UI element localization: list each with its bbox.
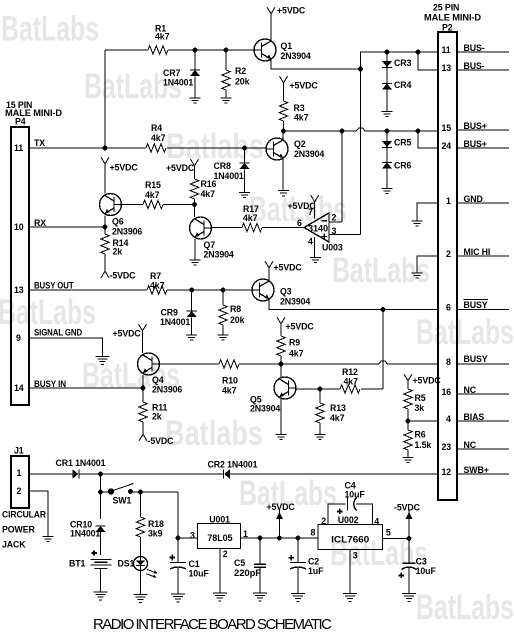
svg-text:MALE MINI-D: MALE MINI-D bbox=[424, 13, 481, 23]
svg-text:+5VDC: +5VDC bbox=[110, 163, 139, 173]
svg-text:DS1: DS1 bbox=[118, 559, 135, 569]
svg-text:MIC HI: MIC HI bbox=[464, 247, 491, 257]
svg-text:11: 11 bbox=[442, 45, 451, 55]
wire to P2 pin 13 bbox=[418, 52, 438, 70]
ground R13 bbox=[315, 435, 326, 440]
svg-text:R15: R15 bbox=[145, 180, 161, 190]
svg-text:C5: C5 bbox=[234, 558, 245, 568]
svg-text:BUS+: BUS+ bbox=[464, 139, 487, 149]
resistor R3 4k7 bbox=[279, 101, 308, 131]
junction CR3 top bbox=[385, 50, 390, 55]
diode CR5 bbox=[382, 131, 412, 163]
wire U003 pin 2 to BUS+ riser bbox=[329, 221, 342, 223]
TX-BUS SECTION bbox=[29, 6, 438, 279]
svg-text:1N4001: 1N4001 bbox=[163, 78, 193, 88]
ground DS1 bbox=[134, 595, 148, 603]
svg-text:BUSY: BUSY bbox=[464, 300, 488, 310]
svg-text:4: 4 bbox=[308, 237, 313, 247]
wire R12 riser upper bbox=[382, 310, 384, 390]
svg-text:4k7: 4k7 bbox=[145, 190, 160, 200]
svg-text:220pF: 220pF bbox=[234, 568, 262, 578]
svg-text:2N3906: 2N3906 bbox=[152, 385, 182, 395]
ground U002 pin 3 bbox=[343, 594, 357, 602]
wire J1 pin 2 to ground bbox=[29, 491, 48, 537]
svg-text:+5VDC: +5VDC bbox=[274, 263, 303, 273]
wire P2 pin 1 to ground bbox=[417, 203, 438, 221]
svg-text:10uF: 10uF bbox=[416, 566, 437, 576]
svg-text:Batlabs: Batlabs bbox=[165, 414, 263, 453]
svg-text:3: 3 bbox=[353, 551, 358, 561]
svg-text:R18: R18 bbox=[148, 519, 164, 529]
ground U003 pin 4 bbox=[310, 258, 321, 263]
svg-text:4k7: 4k7 bbox=[243, 213, 258, 223]
svg-text:3k: 3k bbox=[415, 403, 425, 413]
power +5VDC output bbox=[267, 502, 296, 538]
svg-text:P4: P4 bbox=[15, 117, 26, 127]
power +5VDC R16 bbox=[166, 159, 199, 179]
svg-text:13: 13 bbox=[442, 63, 452, 73]
svg-text:R7: R7 bbox=[150, 271, 161, 281]
svg-text:J1: J1 bbox=[14, 446, 24, 456]
wire Q6 collector to R15 bbox=[122, 204, 195, 206]
wire Q1 emitter to BUS- node bbox=[271, 60, 361, 69]
power +5VDC Q6 bbox=[101, 157, 138, 194]
svg-text:RADIO INTERFACE BOARD SCHEMATI: RADIO INTERFACE BOARD SCHEMATIC bbox=[93, 616, 332, 633]
capacitor C2 1uF bbox=[289, 538, 325, 594]
wire Q2 emitter to ground bbox=[282, 159, 284, 191]
wire BUS+ riser to op-amp pin 2 bbox=[341, 131, 343, 222]
svg-text:78L05: 78L05 bbox=[207, 533, 232, 543]
svg-text:+5VDC: +5VDC bbox=[413, 376, 442, 386]
wire U003 pin 3 to BUS- riser bbox=[329, 234, 361, 236]
svg-text:U003: U003 bbox=[322, 243, 343, 253]
ground BT1 bbox=[94, 592, 108, 600]
resistor R6 1.5k bbox=[404, 421, 432, 458]
svg-text:1uF: 1uF bbox=[308, 566, 324, 576]
svg-text:20k: 20k bbox=[230, 315, 245, 325]
svg-text:R16: R16 bbox=[201, 179, 217, 189]
net NC pin16 stub bbox=[457, 385, 509, 395]
diode CR9 1N4001 bbox=[160, 290, 197, 335]
resistor R8 20k bbox=[219, 290, 245, 335]
svg-text:2: 2 bbox=[321, 516, 326, 526]
wire Q7 emitter to ground bbox=[194, 239, 196, 260]
svg-text:2: 2 bbox=[332, 213, 337, 223]
net GND stub bbox=[457, 194, 509, 204]
svg-text:Q2: Q2 bbox=[294, 139, 306, 149]
ground Q7 bbox=[190, 260, 201, 265]
wire BUSY IN from P4 pin 14 bbox=[29, 387, 143, 389]
power -5VDC output bbox=[394, 503, 421, 539]
resistor R2 20k bbox=[222, 50, 250, 98]
svg-text:POWER: POWER bbox=[2, 525, 35, 535]
wire U001 pin 2 to ground bbox=[219, 549, 221, 593]
svg-text:4k7: 4k7 bbox=[330, 413, 345, 423]
svg-text:C1: C1 bbox=[189, 559, 200, 569]
svg-text:BUS+: BUS+ bbox=[464, 121, 487, 131]
net NC pin23 stub bbox=[457, 440, 509, 450]
wire BUS- riser and top run bbox=[361, 52, 439, 69]
svg-text:2k: 2k bbox=[152, 412, 162, 422]
transistor Q7 2N3904 bbox=[190, 217, 234, 260]
ground R8 bbox=[218, 335, 229, 340]
svg-text:4k7: 4k7 bbox=[151, 133, 166, 143]
junction CR9 bbox=[189, 288, 194, 293]
wire Q7 collector to R17 bbox=[212, 227, 304, 229]
junction BUS- bbox=[358, 67, 363, 72]
ground CR7 bbox=[190, 98, 201, 103]
wire SIGNAL GND from P4 pin 9 bbox=[29, 338, 103, 357]
resistor R13 4k7 bbox=[316, 389, 346, 435]
battery BT1 bbox=[69, 550, 112, 592]
ground CR5 CR6 bbox=[382, 189, 393, 194]
diode CR4 bbox=[382, 80, 412, 111]
wire U002 pin 5 to -5VDC node bbox=[383, 538, 410, 540]
wire CR1 to CR2 bbox=[79, 473, 224, 475]
svg-text:6: 6 bbox=[297, 218, 302, 228]
wire U003 pin 4 to ground bbox=[314, 237, 316, 258]
resistor R1 4k7 bbox=[148, 24, 170, 55]
svg-text:1: 1 bbox=[446, 196, 451, 206]
svg-text:CR7: CR7 bbox=[163, 68, 181, 78]
resistor R7 4k7 bbox=[147, 271, 167, 294]
svg-text:R3: R3 bbox=[294, 103, 305, 113]
resistor R14 2k bbox=[101, 227, 129, 271]
wire TX node to CR8 bbox=[242, 146, 247, 151]
svg-text:R2: R2 bbox=[235, 66, 246, 76]
svg-text:R8: R8 bbox=[230, 304, 241, 314]
svg-text:CR9: CR9 bbox=[161, 308, 179, 318]
svg-text:CR5: CR5 bbox=[394, 138, 412, 148]
svg-text:+5VDC: +5VDC bbox=[113, 329, 142, 339]
junction pin13 branch bbox=[416, 50, 421, 55]
svg-text:BatLabs: BatLabs bbox=[416, 313, 514, 352]
wire BUS+ run with hop over BUS- riser bbox=[284, 128, 439, 131]
wire U002 pin 2 up bbox=[328, 504, 346, 525]
ground J1 pin 2 bbox=[43, 537, 54, 542]
svg-text:R4: R4 bbox=[151, 123, 162, 133]
junction R8 bbox=[221, 288, 226, 293]
svg-text:BT1: BT1 bbox=[69, 559, 86, 569]
junction BIAS bbox=[406, 419, 411, 424]
transistor Q4 2N3906 bbox=[138, 353, 183, 395]
power +5VDC R9 bbox=[277, 317, 314, 336]
svg-text:4k7: 4k7 bbox=[222, 386, 237, 396]
svg-text:4k7: 4k7 bbox=[201, 189, 216, 199]
wire J1 pin 1 to CR1 bbox=[29, 473, 73, 475]
svg-text:3: 3 bbox=[190, 530, 195, 540]
junction BUSY node Q5 collector bbox=[279, 362, 284, 367]
svg-text:1.5k: 1.5k bbox=[415, 440, 432, 450]
svg-text:BatLabs: BatLabs bbox=[332, 251, 430, 290]
diode CR6 bbox=[382, 161, 412, 189]
svg-text:+5VDC: +5VDC bbox=[166, 163, 195, 173]
ground C1 bbox=[171, 594, 185, 602]
svg-text:4: 4 bbox=[374, 517, 379, 527]
ground C5 bbox=[253, 593, 267, 601]
svg-text:2: 2 bbox=[446, 249, 451, 259]
svg-text:R5: R5 bbox=[415, 393, 426, 403]
svg-text:4k7: 4k7 bbox=[150, 281, 165, 291]
connector P2 25-pin male mini-D bbox=[424, 3, 481, 501]
svg-text:15: 15 bbox=[442, 123, 452, 133]
diode CR2 1N4001 bbox=[208, 460, 258, 479]
resistor R16 4k7 bbox=[190, 179, 216, 205]
LED DS1 bbox=[118, 556, 158, 595]
svg-text:4k7: 4k7 bbox=[289, 349, 304, 359]
junction SW1 left bbox=[98, 490, 103, 495]
junction C2 bbox=[296, 536, 301, 541]
transistor Q5 2N3904 bbox=[250, 377, 296, 414]
svg-text:CR2 1N4001: CR2 1N4001 bbox=[208, 460, 258, 470]
power +5VDC Q4 bbox=[113, 324, 147, 353]
capacitor C4 10uF bbox=[337, 481, 365, 515]
svg-text:10: 10 bbox=[14, 222, 24, 232]
svg-text:1N4001: 1N4001 bbox=[160, 317, 190, 327]
svg-text:R13: R13 bbox=[330, 403, 346, 413]
wire U002 pin 3 to ground bbox=[349, 550, 351, 594]
svg-text:+5VDC: +5VDC bbox=[277, 6, 306, 16]
svg-text:CR3: CR3 bbox=[394, 58, 412, 68]
svg-text:-5VDC: -5VDC bbox=[148, 436, 175, 446]
ground R6 bbox=[403, 458, 414, 463]
svg-text:R12: R12 bbox=[342, 367, 358, 377]
ground CR8 bbox=[239, 193, 250, 198]
net BUSY stub bbox=[457, 354, 509, 364]
power +5VDC R3 bbox=[280, 76, 319, 101]
svg-text:CR6: CR6 bbox=[394, 161, 412, 171]
net BIAS stub bbox=[457, 412, 509, 422]
wire Q4 to R10 bbox=[159, 363, 281, 365]
svg-text:13: 13 bbox=[14, 285, 24, 295]
ground P2 pin 1 bbox=[412, 221, 423, 226]
wire P2 pin 2 to ground bbox=[417, 256, 438, 273]
svg-text:-5VDC: -5VDC bbox=[110, 271, 137, 281]
connector P4 15-pin male mini-D bbox=[5, 100, 62, 405]
svg-text:2k: 2k bbox=[113, 247, 123, 257]
resistor R17 4k7 bbox=[242, 204, 262, 232]
wire U002 pin 4 up bbox=[356, 504, 373, 525]
net BUS+ pin24 stub bbox=[457, 139, 509, 149]
ground P2 pin 2 bbox=[412, 273, 423, 278]
diode CR8 1N4001 bbox=[214, 148, 250, 193]
IC U002 ICL7660 bbox=[311, 515, 391, 561]
svg-text:BUSY OUT: BUSY OUT bbox=[34, 281, 74, 291]
wire Q5 collector lead bbox=[280, 364, 282, 378]
capacitor C5 220pF bbox=[234, 538, 266, 593]
svg-text:Q1: Q1 bbox=[281, 41, 293, 51]
svg-text:4k7: 4k7 bbox=[344, 377, 359, 387]
resistor R18 3k9 bbox=[136, 492, 164, 557]
svg-text:4k7: 4k7 bbox=[294, 113, 309, 123]
svg-text:3k9: 3k9 bbox=[148, 529, 163, 539]
wire Q4 lower lead bbox=[142, 375, 144, 388]
svg-text:1N4001: 1N4001 bbox=[214, 171, 244, 181]
svg-text:BatLabs: BatLabs bbox=[0, 293, 96, 332]
ground C2 bbox=[291, 594, 305, 602]
resistor R15 4k7 bbox=[143, 180, 163, 209]
svg-text:C2: C2 bbox=[308, 557, 319, 567]
power -5VDC R14 bbox=[101, 271, 136, 281]
resistor R12 4k7 bbox=[340, 367, 360, 393]
svg-text:Q3: Q3 bbox=[280, 287, 292, 297]
svg-text:1N4001: 1N4001 bbox=[70, 529, 100, 539]
svg-text:2: 2 bbox=[223, 549, 228, 559]
power +5VDC U003 pin 7 bbox=[288, 195, 319, 219]
diode CR10 1N4001 bbox=[70, 520, 106, 556]
svg-text:2N3904: 2N3904 bbox=[294, 149, 324, 159]
power +5VDC Q1 bbox=[267, 6, 306, 41]
svg-text:R10: R10 bbox=[222, 376, 238, 386]
svg-text:CIRCULAR: CIRCULAR bbox=[2, 510, 47, 520]
wire BUSY run to P2 pin 8 with hop over R12 riser bbox=[281, 361, 438, 364]
svg-text:CR4: CR4 bbox=[394, 80, 412, 90]
svg-text:U001: U001 bbox=[209, 515, 230, 525]
svg-text:-5VDC: -5VDC bbox=[394, 503, 421, 513]
junction C5 bbox=[258, 536, 263, 541]
junction R15 R16 Q7 bbox=[192, 202, 197, 207]
net BUSY-bar stub bbox=[457, 300, 509, 311]
wire Q5 emitter to ground bbox=[280, 399, 282, 435]
junction CR7 bbox=[193, 48, 198, 53]
svg-text:CR8: CR8 bbox=[214, 161, 232, 171]
transistor Q6 2N3906 bbox=[100, 194, 143, 237]
junction Q4 base bbox=[141, 386, 146, 391]
resistor R5 3k bbox=[404, 389, 426, 421]
resistor R4 4k7 bbox=[146, 123, 166, 152]
svg-text:BUS-: BUS- bbox=[464, 61, 485, 71]
svg-text:1: 1 bbox=[17, 468, 22, 478]
ground Q2 bbox=[278, 191, 289, 196]
svg-text:2: 2 bbox=[17, 486, 22, 496]
ground Q5 bbox=[276, 435, 287, 440]
ground C3 bbox=[402, 594, 416, 602]
wire BIAS to P2 pin 4 bbox=[408, 420, 438, 422]
svg-text:BatLabs: BatLabs bbox=[1, 10, 99, 49]
svg-text:2N3904: 2N3904 bbox=[250, 404, 280, 414]
svg-text:ICL7660: ICL7660 bbox=[331, 535, 369, 545]
junction BUSY-bar R12 riser bbox=[381, 307, 386, 312]
svg-text:14: 14 bbox=[14, 383, 24, 393]
svg-text:8: 8 bbox=[311, 528, 316, 538]
wire BUSY OUT from P4 pin 13 bbox=[29, 289, 253, 291]
net SWB+ stub bbox=[457, 465, 509, 475]
wire to P2 pin 24 bbox=[418, 131, 438, 148]
svg-text:+5VDC: +5VDC bbox=[288, 201, 317, 211]
svg-text:BUS-: BUS- bbox=[464, 43, 485, 53]
POWER SECTION bbox=[29, 458, 438, 602]
IC U001 78L05 bbox=[190, 515, 248, 560]
svg-text:9: 9 bbox=[16, 333, 21, 343]
svg-text:+5VDC: +5VDC bbox=[267, 502, 296, 512]
svg-text:P2: P2 bbox=[442, 23, 453, 33]
svg-text:Q6: Q6 bbox=[112, 217, 124, 227]
junction R2 bbox=[224, 48, 229, 53]
svg-text:12: 12 bbox=[442, 467, 452, 477]
svg-text:2N3904: 2N3904 bbox=[280, 297, 310, 307]
svg-text:BatLabs: BatLabs bbox=[416, 588, 514, 627]
wire BUS- vertical to op-amp pin 3 bbox=[360, 69, 362, 235]
svg-text:R6: R6 bbox=[415, 430, 426, 440]
junction RX bbox=[103, 225, 108, 230]
op-amp U003 3140 bbox=[297, 207, 343, 253]
net BUS- pin13 stub bbox=[457, 61, 509, 71]
svg-text:C3: C3 bbox=[416, 557, 427, 567]
wire Q5 right lead to R12 bbox=[296, 388, 383, 390]
svg-text:23: 23 bbox=[442, 442, 452, 452]
junction C1 bbox=[176, 536, 181, 541]
svg-text:25 PIN: 25 PIN bbox=[433, 3, 459, 13]
wire power node down to SW1 bbox=[100, 474, 102, 519]
junction CR5 top bbox=[385, 129, 390, 134]
wire TX from P4 pin 11 bbox=[29, 147, 266, 149]
svg-text:CR1 1N4001: CR1 1N4001 bbox=[56, 458, 106, 468]
diode CR1 1N4001 bbox=[56, 458, 106, 479]
wire SW1 to U001 pin 3 bbox=[178, 492, 198, 538]
wire R1 node line bbox=[105, 49, 254, 51]
svg-text:+5VDC: +5VDC bbox=[286, 322, 315, 332]
svg-text:TX: TX bbox=[34, 138, 45, 148]
resistor R9 4k7 bbox=[277, 336, 304, 364]
wire riser to R1 line bbox=[104, 50, 106, 148]
svg-text:2N3904: 2N3904 bbox=[281, 51, 311, 61]
svg-text:10uF: 10uF bbox=[345, 490, 366, 500]
ground CR3 CR4 bbox=[382, 111, 393, 116]
junction power node bbox=[98, 472, 103, 477]
junction BUS+ opamp riser bbox=[340, 129, 345, 134]
svg-text:R9: R9 bbox=[289, 338, 300, 348]
svg-text:2N3904: 2N3904 bbox=[204, 250, 234, 260]
ground SIGNAL GND bbox=[96, 357, 110, 365]
switch SW1 bbox=[101, 484, 179, 506]
capacitor C1 10uF bbox=[170, 538, 210, 594]
svg-text:GND: GND bbox=[464, 194, 483, 204]
svg-text:24: 24 bbox=[442, 141, 452, 151]
svg-text:U002: U002 bbox=[338, 515, 359, 525]
diode CR3 bbox=[382, 52, 412, 84]
svg-text:3140: 3140 bbox=[308, 224, 328, 234]
svg-text:Q7: Q7 bbox=[204, 240, 216, 250]
svg-text:+5VDC: +5VDC bbox=[290, 81, 319, 91]
net BUS- pin11 stub bbox=[457, 43, 509, 53]
junction +5VDC arrow bbox=[277, 536, 282, 541]
wire Q3 emitter BUSY-bar run to P2 pin 6 bbox=[269, 300, 438, 310]
wire U001 pin 1 +5VDC rail to U002 pin 8 bbox=[241, 537, 318, 539]
svg-text:BUSY: BUSY bbox=[464, 354, 488, 364]
junction R18 top bbox=[138, 490, 143, 495]
svg-text:2N3906: 2N3906 bbox=[112, 227, 142, 237]
svg-text:SWB+: SWB+ bbox=[464, 465, 489, 475]
svg-text:NC: NC bbox=[464, 440, 477, 450]
ground U001 pin 2 bbox=[213, 593, 227, 601]
svg-text:BIAS: BIAS bbox=[464, 412, 485, 422]
svg-text:20k: 20k bbox=[235, 77, 250, 87]
svg-text:10uF: 10uF bbox=[189, 569, 210, 579]
svg-text:4: 4 bbox=[446, 414, 451, 424]
net MIC HI stub bbox=[457, 247, 509, 257]
wire CR2 to P2 pin 12 SWB+ bbox=[230, 473, 438, 475]
svg-text:8: 8 bbox=[446, 357, 451, 367]
svg-text:SIGNAL GND: SIGNAL GND bbox=[34, 328, 82, 338]
svg-text:16: 16 bbox=[442, 387, 452, 397]
svg-text:5: 5 bbox=[386, 528, 391, 538]
junction BUS+ at R3/Q2 bbox=[281, 129, 286, 134]
transistor Q3 2N3904 bbox=[252, 279, 310, 307]
wire Q6 lower lead to RX bbox=[104, 215, 106, 227]
transistor Q2 2N3904 bbox=[266, 138, 324, 160]
power +5VDC Q3 bbox=[265, 261, 302, 281]
svg-text:JACK: JACK bbox=[2, 540, 26, 550]
